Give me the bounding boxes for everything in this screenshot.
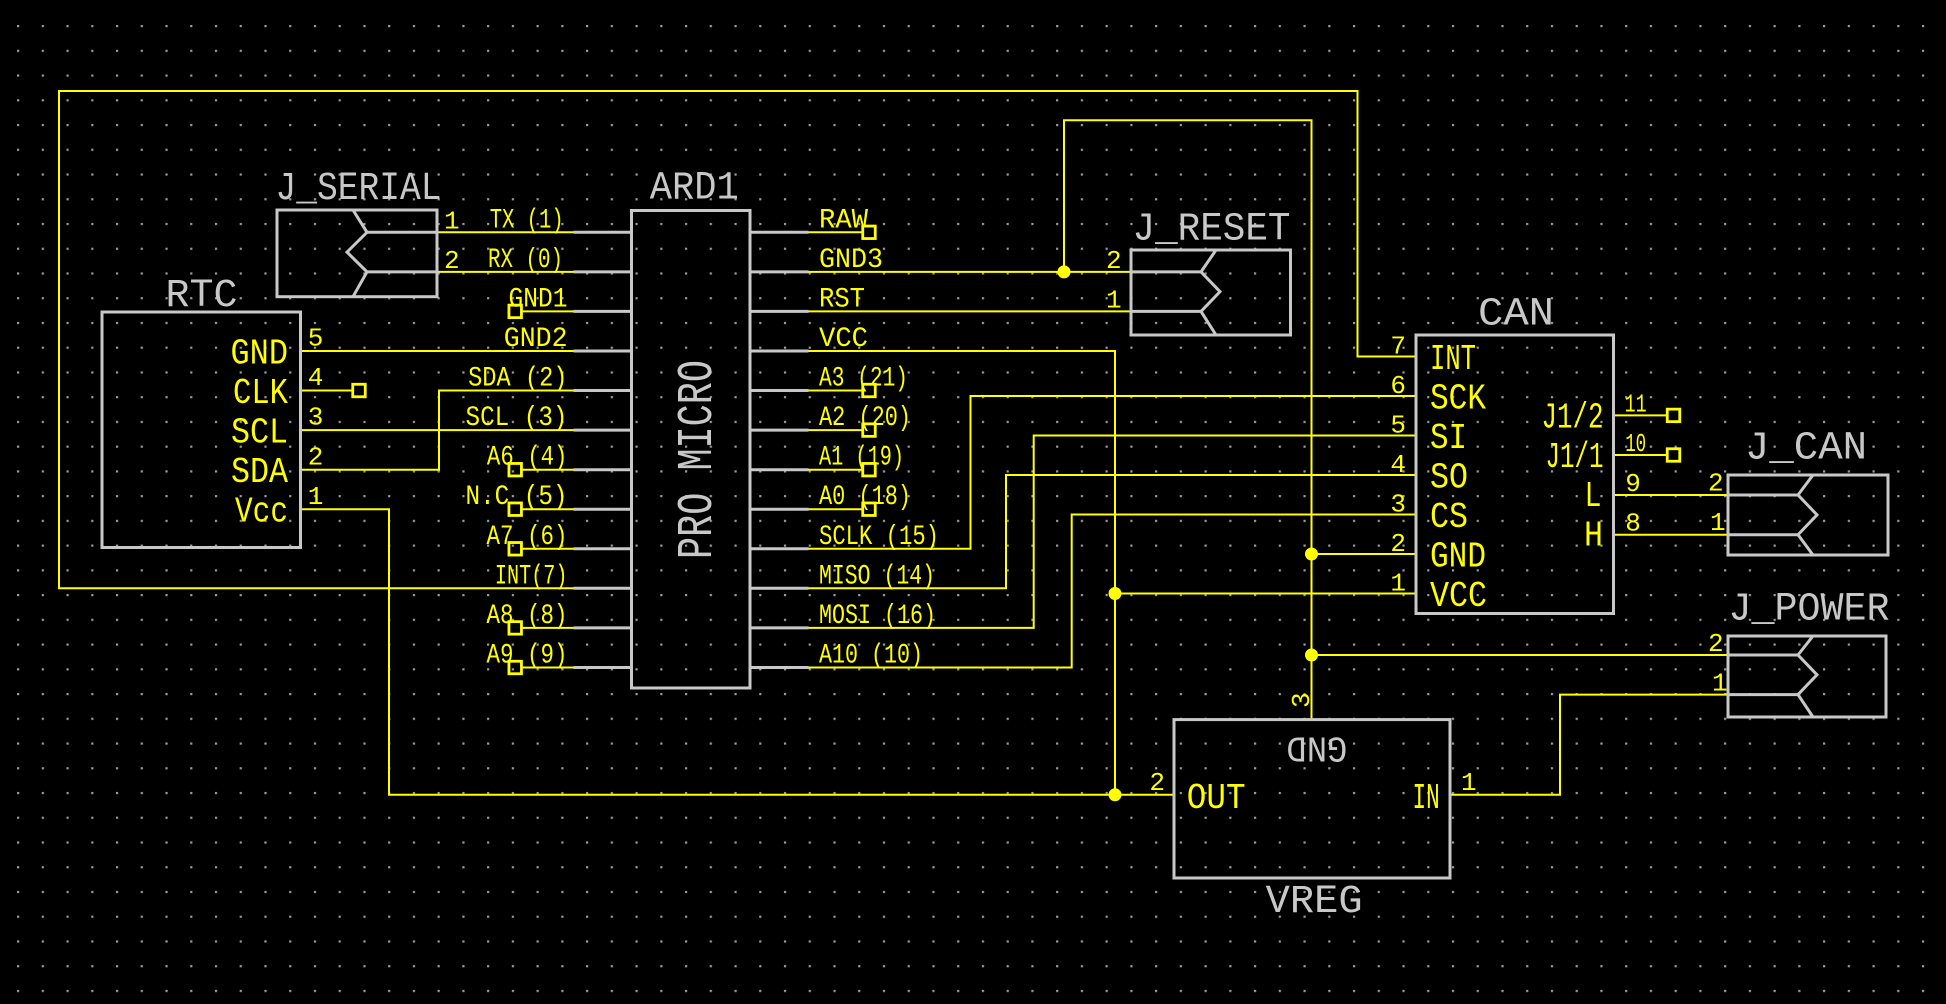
- CAN pin number 11: [1625, 389, 1647, 419]
- IC RTC body: [102, 312, 301, 548]
- ARD1 right pin label MOSI (16): [819, 601, 936, 632]
- ARD1 left pin label SCL (3): [466, 403, 568, 434]
- junction: GND rail / J_POWER pin 2 branch: [1305, 649, 1318, 662]
- CAN pin number 3: [1390, 490, 1406, 520]
- CAN pin number 9: [1625, 469, 1641, 499]
- svg-text:A9 (9): A9 (9): [487, 641, 568, 672]
- svg-text:INT: INT: [1430, 339, 1476, 380]
- svg-text:RAW: RAW: [819, 205, 868, 236]
- svg-text:A10 (10): A10 (10): [819, 641, 923, 672]
- CAN pin number 6: [1390, 371, 1406, 401]
- ARD1 right pin label A0 (18): [819, 482, 911, 513]
- ARD1 left pin label N.C (5): [466, 482, 568, 513]
- svg-text:A7 (6): A7 (6): [487, 522, 568, 553]
- wire net SCLK: ARD1 SCLK(15) to CAN SCK pin 6: [809, 396, 1417, 549]
- svg-text:3: 3: [1287, 692, 1317, 708]
- svg-text:SCL: SCL: [231, 413, 288, 454]
- wire stub: ARD1 A1 pin: [809, 469, 864, 471]
- svg-text:H: H: [1584, 516, 1603, 557]
- wire stub: ARD1 A3 pin: [809, 390, 864, 392]
- CAN pin number 1: [1390, 569, 1406, 599]
- CAN pin name J1/2: [1542, 397, 1604, 438]
- svg-text:RTC: RTC: [166, 274, 238, 319]
- unconnected end marker: ARD1 A1: [863, 463, 876, 476]
- svg-text:A3 (21): A3 (21): [819, 364, 908, 395]
- wire stub: ARD1 A7 pin: [522, 548, 574, 550]
- junction: VCC rail / CAN VCC branch: [1109, 587, 1122, 600]
- CAN pin number 4: [1390, 450, 1406, 480]
- wire stub: ARD1 A8 pin: [522, 627, 574, 629]
- VREG pin name IN: [1413, 778, 1440, 819]
- RTC pin number 1: [308, 482, 324, 512]
- ARD1 left pin label A8 (8): [487, 601, 568, 632]
- svg-text:1: 1: [1390, 569, 1406, 599]
- svg-text:CAN: CAN: [1478, 293, 1554, 338]
- label J_POWER: [1729, 588, 1890, 633]
- CAN pin name L: [1585, 476, 1602, 517]
- RTC pin name GND: [231, 334, 289, 375]
- CAN pin name CS: [1430, 497, 1468, 538]
- svg-text:CLK: CLK: [233, 373, 288, 414]
- svg-text:GND: GND: [231, 334, 289, 375]
- CAN pin name SCK: [1430, 379, 1486, 420]
- unconnected end marker: CAN pin 11: [1667, 409, 1680, 422]
- wire net INT: ARD1 INT(7) to left/top border to CAN INT pin 7: [59, 91, 1416, 588]
- svg-text:VCC: VCC: [1430, 576, 1487, 617]
- net label TX (1): [490, 205, 564, 236]
- J_SERIAL pin number 1: [444, 206, 460, 236]
- svg-text:Vcc: Vcc: [235, 492, 288, 533]
- J_POWER pin number 1: [1712, 669, 1728, 699]
- VREG pin name GND (rotated 180): [1286, 727, 1347, 768]
- svg-text:SI: SI: [1430, 418, 1467, 459]
- J_SERIAL pin number 2: [444, 246, 460, 276]
- CAN pin number 10: [1625, 429, 1646, 459]
- label J_CAN: [1745, 427, 1867, 472]
- J_CAN pin number 1: [1710, 508, 1726, 538]
- ARD1 right pin label SCLK (15): [819, 522, 939, 553]
- svg-text:J_RESET: J_RESET: [1133, 208, 1291, 253]
- svg-text:A8 (8): A8 (8): [487, 601, 568, 632]
- wire stub: CAN J1/2 pin 11: [1614, 414, 1669, 416]
- wire net GND: branch to CAN GND pin 2: [1312, 553, 1417, 555]
- CAN pin name SO: [1430, 458, 1468, 499]
- ARD1 right pin label RST: [819, 284, 865, 315]
- RTC pin number 4: [308, 363, 324, 393]
- wire net VCC: branch to CAN VCC pin 1: [1115, 593, 1416, 595]
- svg-text:INT(7): INT(7): [495, 561, 568, 592]
- svg-text:PRO MICRO: PRO MICRO: [670, 360, 727, 559]
- J_POWER pin number 2: [1708, 629, 1724, 659]
- CAN pin name INT: [1430, 339, 1476, 380]
- ARD1 left pin label A7 (6): [487, 522, 568, 553]
- ARD1 left pin label INT(7): [495, 561, 568, 592]
- label CAN: [1478, 293, 1554, 338]
- ARD1 left pin label GND2: [504, 324, 568, 355]
- unconnected end marker: ARD1 GND1: [509, 305, 522, 318]
- svg-text:3: 3: [308, 403, 324, 433]
- unconnected end marker: RTC CLK: [353, 384, 366, 397]
- svg-text:N.C (5): N.C (5): [466, 482, 568, 513]
- wire net GND: ARD1 GND3 to J_RESET pin 2: [809, 271, 1133, 273]
- J_RESET pin number 1: [1106, 285, 1122, 315]
- svg-text:OUT: OUT: [1187, 778, 1246, 819]
- RTC pin name Vcc: [235, 492, 288, 533]
- net label RX (0): [488, 245, 563, 276]
- CAN pin name SI: [1430, 418, 1467, 459]
- svg-text:CS: CS: [1430, 497, 1468, 538]
- svg-text:2: 2: [1708, 469, 1724, 499]
- CAN pin number 5: [1390, 411, 1406, 441]
- svg-text:SCK: SCK: [1430, 379, 1486, 420]
- unconnected end marker: ARD1 A7: [509, 543, 522, 556]
- svg-text:1: 1: [1712, 669, 1728, 699]
- CAN pin number 7: [1390, 332, 1406, 362]
- ARD1 right pin label MISO (14): [819, 561, 935, 592]
- unconnected end marker: ARD1 N.C: [509, 503, 522, 516]
- ARD1 left pin label A9 (9): [487, 641, 568, 672]
- unconnected end marker: CAN pin 10: [1667, 449, 1680, 462]
- VREG pin number 2: [1149, 768, 1165, 798]
- wire net H: CAN H pin 8 to J_CAN pin 1: [1614, 534, 1729, 536]
- label RTC: [166, 274, 238, 319]
- unconnected end marker: ARD1 A8: [509, 622, 522, 635]
- svg-text:SCL (3): SCL (3): [466, 403, 568, 434]
- unconnected end marker: ARD1 A9: [509, 661, 522, 674]
- CAN pin name GND: [1430, 537, 1486, 578]
- svg-text:TX (1): TX (1): [490, 205, 564, 236]
- svg-text:MISO (14): MISO (14): [819, 561, 935, 592]
- svg-text:2: 2: [1149, 768, 1165, 798]
- label VREG: [1266, 880, 1363, 925]
- svg-text:9: 9: [1625, 469, 1641, 499]
- unconnected end marker: ARD1 A2: [863, 424, 876, 437]
- wire net TX: J_SERIAL pin 1 to ARD1 TX: [437, 231, 574, 233]
- IC ARD1 (PRO MICRO) body: [632, 211, 751, 689]
- svg-text:SDA: SDA: [231, 452, 288, 493]
- svg-text:4: 4: [1390, 450, 1406, 480]
- ARD1 right pin label A2 (20): [819, 403, 911, 434]
- RTC pin name SDA: [231, 452, 288, 493]
- svg-text:1: 1: [1106, 285, 1122, 315]
- svg-text:GND1: GND1: [509, 284, 568, 315]
- connector J_SERIAL symbol: [277, 210, 437, 297]
- ARD1 right pin label A10 (10): [819, 641, 923, 672]
- IC VREG body: [1174, 720, 1450, 878]
- svg-text:2: 2: [444, 246, 460, 276]
- unconnected end marker: ARD1 A6: [509, 463, 522, 476]
- svg-text:1: 1: [1461, 768, 1477, 798]
- wire net GND: branch up over J_RESET down to VREG pin 3: [1064, 120, 1312, 719]
- J_CAN pin number 2: [1708, 469, 1724, 499]
- wire net RST: ARD1 RST to J_RESET pin 1: [809, 310, 1133, 312]
- ARD1 right pin label GND3: [819, 245, 883, 276]
- unconnected end marker: ARD1 A3: [863, 384, 876, 397]
- ARD1 right pin label A1 (19): [819, 443, 904, 474]
- svg-text:J1/2: J1/2: [1542, 397, 1604, 438]
- svg-text:1: 1: [308, 482, 324, 512]
- svg-text:RX (0): RX (0): [488, 245, 563, 276]
- wire net VCC: RTC Vcc pin 1 to VREG OUT pin 2: [301, 509, 1175, 795]
- svg-text:GND: GND: [1430, 537, 1486, 578]
- svg-text:MOSI (16): MOSI (16): [819, 601, 936, 632]
- svg-text:SDA (2): SDA (2): [468, 364, 567, 395]
- svg-text:2: 2: [1106, 246, 1122, 276]
- IC CAN body: [1416, 335, 1614, 614]
- wire stub: ARD1 N.C pin: [522, 508, 574, 510]
- wire net VCC: ARD1 VCC down to OUT rail: [809, 351, 1116, 795]
- ARD1 pin stubs (left and right): [574, 232, 809, 667]
- svg-text:10: 10: [1625, 429, 1646, 459]
- junction: GND3 / J_RESET pin 2: [1058, 265, 1071, 278]
- wire net SDA: RTC SDA pin 2 to ARD1 SDA: [301, 391, 574, 470]
- RTC pin number 5: [308, 324, 324, 354]
- wire net GND: RTC GND pin 5 to ARD1 GND2: [301, 350, 574, 352]
- connector J_RESET symbol: [1131, 250, 1291, 335]
- svg-text:11: 11: [1625, 389, 1647, 419]
- svg-text:J_SERIAL: J_SERIAL: [276, 167, 442, 212]
- RTC pin name CLK: [233, 373, 288, 414]
- VREG pin number 3 (rotated): [1287, 692, 1317, 708]
- svg-text:6: 6: [1390, 371, 1406, 401]
- RTC pin number 3: [308, 403, 324, 433]
- RTC pin name SCL: [231, 413, 288, 454]
- label PRO MICRO (rotated): [670, 360, 727, 559]
- wire net MISO: ARD1 MISO(14) to CAN SO pin 4: [809, 475, 1417, 588]
- CAN pin number 2: [1390, 529, 1406, 559]
- svg-text:GND: GND: [1286, 727, 1347, 768]
- svg-text:L: L: [1585, 476, 1602, 517]
- svg-text:J_CAN: J_CAN: [1745, 427, 1867, 472]
- CAN pin name J1/1: [1546, 437, 1604, 478]
- svg-text:4: 4: [308, 363, 324, 393]
- svg-text:2: 2: [308, 442, 324, 472]
- ARD1 left pin label A6 (4): [487, 443, 568, 474]
- wire net L: CAN L pin 9 to J_CAN pin 2: [1614, 494, 1729, 496]
- svg-text:7: 7: [1390, 332, 1406, 362]
- ARD1 left pin label SDA (2): [468, 364, 567, 395]
- wire net MOSI: ARD1 MOSI(16) to CAN SI pin 5: [809, 436, 1417, 628]
- svg-text:VCC: VCC: [819, 324, 868, 355]
- svg-text:1: 1: [1710, 508, 1726, 538]
- connector J_POWER symbol: [1728, 636, 1886, 717]
- wire stub: ARD1 A6 pin: [522, 469, 574, 471]
- ARD1 right pin label VCC: [819, 324, 868, 355]
- svg-text:A0 (18): A0 (18): [819, 482, 911, 513]
- wire net CS: ARD1 A10(10) to CAN CS pin 3: [809, 515, 1417, 668]
- RTC pin number 2: [308, 442, 324, 472]
- svg-text:2: 2: [1390, 529, 1406, 559]
- svg-text:ARD1: ARD1: [650, 167, 739, 212]
- svg-text:3: 3: [1390, 490, 1406, 520]
- svg-text:VREG: VREG: [1266, 880, 1363, 925]
- svg-text:IN: IN: [1413, 778, 1440, 819]
- svg-text:A2 (20): A2 (20): [819, 403, 911, 434]
- ARD1 right pin label A3 (21): [819, 364, 908, 395]
- svg-text:A6 (4): A6 (4): [487, 443, 568, 474]
- CAN pin name VCC: [1430, 576, 1487, 617]
- svg-text:J_POWER: J_POWER: [1729, 588, 1890, 633]
- CAN pin name H: [1584, 516, 1603, 557]
- svg-text:8: 8: [1625, 509, 1641, 539]
- svg-text:J1/1: J1/1: [1546, 437, 1604, 478]
- J_RESET pin number 2: [1106, 246, 1122, 276]
- ARD1 right pin label RAW: [819, 205, 868, 236]
- wire net IN: VREG IN pin 1 to J_POWER pin 1: [1450, 695, 1728, 795]
- svg-text:GND3: GND3: [819, 245, 883, 276]
- unconnected end marker: ARD1 A0: [863, 503, 876, 516]
- svg-text:5: 5: [1390, 411, 1406, 441]
- unconnected end marker: ARD1 RAW: [863, 226, 876, 239]
- wire stub: CAN J1/1 pin 10: [1614, 454, 1669, 456]
- svg-text:2: 2: [1708, 629, 1724, 659]
- wire stub: RTC CLK pin 4: [301, 390, 354, 392]
- svg-text:RST: RST: [819, 284, 865, 315]
- svg-text:SCLK (15): SCLK (15): [819, 522, 939, 553]
- junction: GND rail / CAN GND branch: [1305, 548, 1318, 561]
- wire net GND: branch to J_POWER pin 2: [1312, 654, 1729, 656]
- junction: VCC rail / OUT rail: [1109, 788, 1122, 801]
- wire stub: ARD1 A9 pin: [522, 667, 574, 669]
- svg-text:GND2: GND2: [504, 324, 568, 355]
- wire net SCL: RTC SCL pin 3 to ARD1 SCL: [301, 429, 574, 431]
- svg-text:SO: SO: [1430, 458, 1468, 499]
- label J_RESET: [1133, 208, 1291, 253]
- wire stub: ARD1 A2 pin: [809, 429, 864, 431]
- wire stub: ARD1 A0 pin: [809, 508, 864, 510]
- connector J_CAN symbol: [1728, 475, 1888, 555]
- wire net RX: J_SERIAL pin 2 to ARD1 RX: [437, 271, 574, 273]
- label J_SERIAL: [276, 167, 442, 212]
- VREG pin name OUT: [1187, 778, 1246, 819]
- svg-text:5: 5: [308, 324, 324, 354]
- wire stub: ARD1 RAW pin: [809, 231, 864, 233]
- svg-text:A1 (19): A1 (19): [819, 443, 904, 474]
- svg-text:1: 1: [444, 206, 460, 236]
- label ARD1: [650, 167, 739, 212]
- CAN pin number 8: [1625, 509, 1641, 539]
- wire stub: ARD1 GND1 pin: [522, 310, 574, 312]
- ARD1 left pin label GND1: [509, 284, 568, 315]
- VREG pin number 1: [1461, 768, 1477, 798]
